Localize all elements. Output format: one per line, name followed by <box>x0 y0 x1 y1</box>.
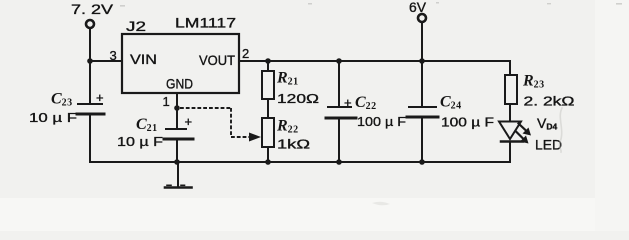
wire LED bottom <box>509 142 511 162</box>
resistor R22 (adjust pot) <box>262 118 274 147</box>
svg-text:7. 2V: 7. 2V <box>71 1 114 17</box>
wiper arrowhead into R22 <box>249 133 261 142</box>
scan artifact smudge bottom center <box>372 202 390 206</box>
capacitor C24 <box>407 107 438 117</box>
wire C24 bottom <box>421 117 423 162</box>
svg-text:2: 2 <box>242 46 249 61</box>
wire ground stub <box>177 162 179 187</box>
capacitor C22 <box>326 95 356 118</box>
wire LED branch top corner <box>509 61 511 75</box>
junction C22 top <box>336 58 342 64</box>
svg-text:1kΩ: 1kΩ <box>277 137 310 152</box>
wire C22 top <box>338 61 340 107</box>
svg-text:+: + <box>96 90 104 105</box>
svg-text:6V: 6V <box>409 0 427 15</box>
regulator U1 LM1117 (J2) <box>122 34 239 93</box>
capacitor C23 <box>77 90 104 114</box>
svg-text:J2: J2 <box>126 18 146 34</box>
junction R21 top <box>265 58 271 64</box>
wire C22 bottom <box>338 118 340 162</box>
wire R23 to LED <box>509 104 511 122</box>
junction ground node <box>174 159 180 165</box>
svg-text:100 µ F: 100 µ F <box>357 114 406 129</box>
wire input to VIN pin 3 <box>90 60 122 62</box>
wire dashed vertical <box>230 108 232 137</box>
svg-text:+: + <box>344 95 352 110</box>
svg-text:10 µ F: 10 µ F <box>29 110 77 125</box>
wire from 7.2V terminal down left side <box>89 29 91 105</box>
svg-text:LED: LED <box>535 137 562 153</box>
scan artifact squiggle right edge <box>559 108 562 152</box>
svg-text:GND: GND <box>166 76 193 92</box>
node 6V output terminal <box>409 0 427 22</box>
junction adjust node <box>174 105 180 111</box>
wire VOUT rail <box>239 60 510 62</box>
wire GND pin stub <box>176 93 178 108</box>
svg-text:VIN: VIN <box>130 51 157 67</box>
resistor R23 <box>505 75 517 104</box>
svg-text:VOUT: VOUT <box>199 52 235 68</box>
svg-text:LM1117: LM1117 <box>175 15 236 31</box>
svg-text:3: 3 <box>110 48 117 63</box>
svg-text:1: 1 <box>163 94 170 109</box>
svg-text:10 µ F: 10 µ F <box>117 134 163 149</box>
resistor R21 <box>262 71 274 99</box>
svg-text:100 µ F: 100 µ F <box>441 115 494 130</box>
wire C24 top <box>421 61 423 107</box>
wire R21-R22 <box>267 99 269 118</box>
wire C21 top <box>176 108 178 129</box>
wire left vertical below C23 <box>89 114 91 162</box>
wire dashed adjust to R22 wiper (horizontal) <box>180 107 231 109</box>
junction C22 bottom <box>336 159 342 165</box>
svg-text:+: + <box>185 114 193 129</box>
junction C24 top <box>419 58 425 64</box>
ground <box>165 185 192 187</box>
wire 6V stub <box>421 23 423 62</box>
node 7.2V input terminal <box>71 1 114 28</box>
svg-text:120Ω: 120Ω <box>277 91 319 106</box>
junction input node <box>87 58 93 64</box>
junction R22 bottom <box>265 159 271 165</box>
wire bottom rail <box>90 161 510 163</box>
scan specks top edge <box>120 2 622 7</box>
wire C21 bottom <box>176 139 178 162</box>
capacitor C21 <box>164 114 193 139</box>
svg-text:2. 2kΩ: 2. 2kΩ <box>524 94 575 109</box>
LED VD4 <box>499 122 531 144</box>
junction C24 bottom <box>419 159 425 165</box>
wire R21 top stub <box>267 61 269 71</box>
wire R22 bottom stub <box>267 147 269 162</box>
wire dashed into wiper arrow <box>231 136 251 138</box>
